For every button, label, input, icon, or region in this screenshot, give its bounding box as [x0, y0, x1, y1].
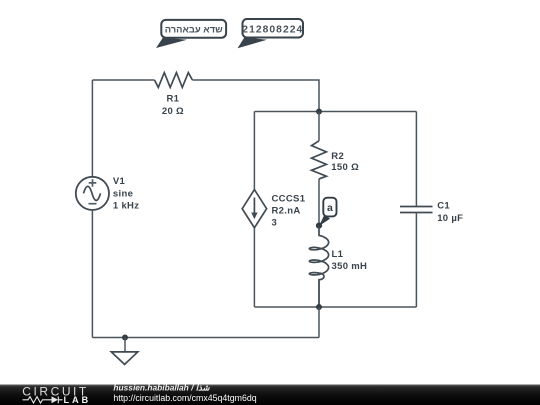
svg-text:212808224: 212808224 [242, 25, 303, 36]
svg-text:1 kHz: 1 kHz [113, 200, 139, 211]
wire C1 top lead [415, 112, 417, 207]
node junction ground [122, 335, 128, 341]
svg-text:L1: L1 [332, 249, 344, 260]
wire R2 to node a [318, 179, 320, 226]
inductor L1 [309, 226, 367, 307]
wire bottom bus upper [254, 306, 416, 308]
annotation bubble 1 [156, 20, 226, 48]
svg-text:CCCS1: CCCS1 [272, 193, 306, 204]
svg-text:http://circuitlab.com/cmx45q4t: http://circuitlab.com/cmx45q4tgm6dq [113, 393, 256, 403]
node junction bottom [316, 304, 322, 310]
svg-text:V1: V1 [113, 176, 126, 187]
svg-text:a: a [327, 202, 333, 214]
svg-text:hussien.habiballah / شذا: hussien.habiballah / شذا [113, 383, 210, 393]
wire middle horizontal bus [254, 111, 416, 113]
svg-text:R2: R2 [331, 151, 344, 162]
footer bar [0, 385, 540, 405]
svg-text:שדא עבאהרה: שדא עבאהרה [165, 24, 223, 35]
svg-text:20 Ω: 20 Ω [162, 106, 184, 117]
wire L1 bottom lead [318, 281, 320, 307]
ground [111, 338, 138, 365]
node junction top [316, 109, 322, 115]
svg-text:sine: sine [113, 188, 133, 199]
svg-text:3: 3 [272, 217, 278, 228]
wire top-left from V1 to R1 [92, 79, 154, 81]
resistor R2 [312, 141, 360, 179]
svg-text:R1: R1 [167, 94, 180, 105]
wire V1 top lead [91, 80, 93, 177]
wire CCCS1 top lead [253, 112, 255, 190]
wire CCCS1 bottom lead [253, 228, 255, 307]
footer logo resistor-diode glyph [23, 396, 63, 403]
svg-text:10 µF: 10 µF [437, 213, 463, 224]
svg-text:LAB: LAB [64, 395, 92, 405]
node a [316, 198, 337, 229]
wire top-right from R1 to middle branch corner [192, 80, 319, 112]
wire bottom stub [318, 307, 320, 338]
svg-text:C1: C1 [437, 200, 450, 211]
capacitor C1 [400, 200, 463, 224]
wire bottom bus lower [92, 337, 319, 339]
wire V1 bottom lead [91, 210, 93, 338]
svg-text:150 Ω: 150 Ω [331, 162, 359, 173]
voltage source V1 [76, 176, 140, 211]
current source CCCS1 [242, 190, 305, 229]
svg-text:R2.nA: R2.nA [272, 205, 301, 216]
annotation bubble 2 [238, 19, 304, 48]
svg-text:350 mH: 350 mH [332, 261, 368, 272]
wire C1 bottom lead [415, 213, 417, 308]
resistor R1 [155, 73, 193, 117]
wire R2 top lead [318, 112, 320, 141]
